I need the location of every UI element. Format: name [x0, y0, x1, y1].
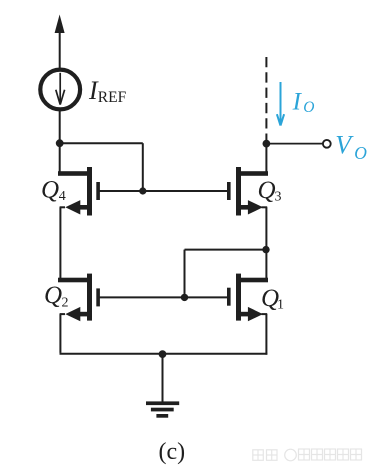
svg-text:2: 2: [62, 296, 69, 311]
svg-text:Q: Q: [44, 282, 62, 309]
svg-text:Q: Q: [258, 177, 276, 204]
svg-text:O: O: [354, 143, 367, 163]
svg-text:3: 3: [275, 189, 282, 204]
svg-text:REF: REF: [98, 89, 127, 106]
svg-text:4: 4: [59, 189, 66, 204]
svg-text:1: 1: [277, 298, 284, 313]
svg-text:(c): (c): [159, 439, 186, 465]
svg-text:O: O: [303, 99, 314, 116]
svg-text:Q: Q: [41, 177, 59, 204]
